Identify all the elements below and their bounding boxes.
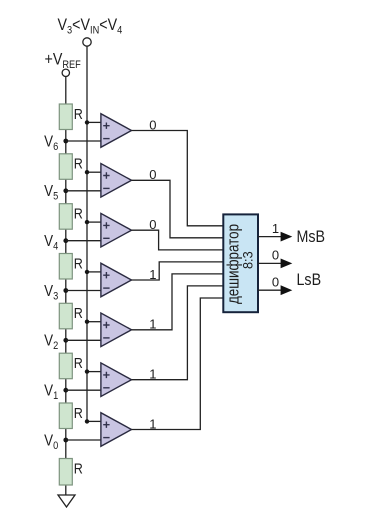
arrowhead decoder output mid — [281, 259, 293, 269]
svg-text:8:3: 8:3 — [240, 251, 255, 269]
comparator U5 — [101, 313, 132, 347]
wire comparator U7 minus input — [66, 439, 101, 441]
comparator U1 — [101, 114, 132, 148]
wire decoder output LsB — [258, 289, 281, 291]
node V3 junction dot — [63, 288, 68, 293]
junction dot on VIN bus for U5 — [85, 320, 89, 324]
resistor R5 — [59, 303, 72, 329]
node label +VREF — [45, 50, 81, 71]
output label MsB — [297, 228, 326, 246]
node V5 junction dot — [63, 188, 68, 193]
node V4 junction dot — [63, 238, 68, 243]
svg-text:R: R — [74, 304, 83, 321]
resistor R2 — [59, 154, 72, 180]
wire comparator U7 output to decoder input 7 — [132, 298, 224, 430]
wire comparator U4 minus input — [66, 290, 101, 292]
comparator U3 — [101, 213, 132, 247]
wire comparator U4 plus input — [87, 271, 101, 273]
resistor R6 — [59, 353, 72, 379]
svg-text:0: 0 — [272, 248, 279, 263]
value label R of R5 — [74, 304, 83, 321]
arrowhead decoder output LsB — [281, 285, 293, 295]
junction dot on VIN bus for U7 — [85, 419, 89, 423]
value label R of R3 — [74, 204, 83, 221]
svg-text:R: R — [74, 155, 83, 172]
wire decoder output mid — [258, 262, 281, 264]
value label R of R4 — [74, 254, 83, 271]
resistor R8 — [59, 459, 72, 486]
value label R of R1 — [74, 105, 83, 122]
wire comparator U3 plus input — [87, 221, 101, 223]
svg-text:1: 1 — [149, 416, 156, 431]
svg-text:R: R — [74, 105, 83, 122]
wire comparator U4 output to decoder input 4 — [132, 262, 224, 280]
wire comparator U5 plus input — [87, 321, 101, 323]
ground — [58, 495, 75, 507]
svg-text:R: R — [74, 459, 83, 476]
value label R of R6 — [74, 354, 83, 371]
node label V2 — [44, 333, 58, 353]
wire comparator U5 minus input — [66, 339, 101, 341]
arrowhead decoder output MsB — [281, 232, 293, 242]
svg-text:1: 1 — [272, 221, 279, 236]
junction dot on VIN bus for U6 — [85, 369, 89, 373]
value label R of R2 — [74, 155, 83, 172]
svg-text:0: 0 — [149, 167, 156, 182]
wire resistor ladder vertical — [65, 77, 67, 495]
wire comparator U5 output to decoder input 5 — [132, 274, 224, 330]
node label V3<VIN<V4 — [58, 16, 123, 37]
svg-text:0: 0 — [149, 117, 156, 132]
wire comparator U6 minus input — [66, 389, 101, 391]
svg-text:MsB: MsB — [297, 228, 326, 246]
svg-text:R: R — [74, 354, 83, 371]
node V1 junction dot — [63, 388, 68, 393]
wire comparator U1 minus input — [66, 140, 101, 142]
node V6 junction dot — [63, 139, 68, 144]
comparator U2 — [101, 164, 132, 198]
junction dot on VIN bus for U4 — [85, 270, 89, 274]
node label V4 — [44, 233, 58, 253]
resistor R1 — [59, 104, 72, 130]
svg-text:R: R — [74, 204, 83, 221]
svg-text:R: R — [74, 404, 83, 421]
comparator U6 — [101, 363, 132, 397]
value label R of R8 — [74, 459, 83, 476]
wire decoder output MsB — [258, 236, 281, 238]
resistor R3 — [59, 204, 72, 230]
wire comparator U7 plus input — [87, 420, 101, 422]
reference terminal +VREF (open circle) — [62, 69, 69, 76]
resistor R7 — [59, 403, 72, 429]
wire comparator U1 plus input — [87, 121, 101, 123]
junction dot on VIN bus for U2 — [85, 170, 89, 174]
wire comparator U1 output to decoder input 1 — [132, 131, 224, 226]
svg-text:1: 1 — [149, 267, 156, 282]
svg-text:1: 1 — [149, 367, 156, 382]
decoder U8 (дешифратор 8:3) — [223, 214, 258, 312]
output label LsB — [297, 271, 322, 289]
input terminal VIN (open circle) — [83, 38, 91, 46]
wire comparator U3 minus input — [66, 240, 101, 242]
svg-text:R: R — [74, 254, 83, 271]
wire comparator U3 output to decoder input 3 — [132, 230, 224, 250]
svg-text:0: 0 — [272, 274, 279, 289]
wire comparator U2 minus input — [66, 190, 101, 192]
node label V3 — [44, 283, 58, 303]
wire VIN vertical bus — [86, 46, 88, 421]
svg-text:0: 0 — [149, 217, 156, 232]
junction dot on VIN bus for U1 — [85, 120, 89, 124]
wire comparator U2 output to decoder input 2 — [132, 180, 224, 238]
svg-text:LsB: LsB — [297, 271, 322, 289]
comparator U4 — [101, 263, 132, 297]
wire comparator U6 plus input — [87, 371, 101, 373]
value label R of R7 — [74, 404, 83, 421]
svg-text:1: 1 — [149, 317, 156, 332]
comparator U7 — [101, 413, 132, 447]
node V2 junction dot — [63, 338, 68, 343]
wire comparator U6 output to decoder input 6 — [132, 286, 224, 380]
node label V0 — [44, 432, 58, 452]
node V0 junction dot — [63, 438, 68, 443]
resistor R4 — [59, 254, 72, 280]
wire comparator U2 plus input — [87, 171, 101, 173]
node label V6 — [44, 133, 58, 153]
node label V5 — [44, 183, 58, 203]
node label V1 — [44, 383, 58, 403]
junction dot on VIN bus for U3 — [85, 220, 89, 224]
